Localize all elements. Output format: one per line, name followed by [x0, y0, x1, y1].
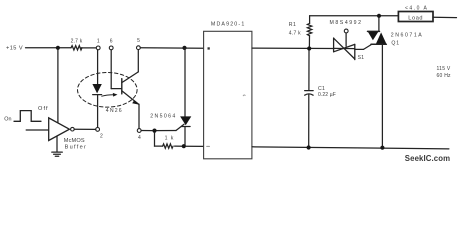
pin 2 terminal of 4N26 [96, 127, 100, 131]
node A junction at +15V rail [56, 46, 60, 50]
svg-text:MDA920-1: MDA920-1 [211, 22, 246, 28]
svg-text:1: 1 [97, 38, 100, 44]
LED of 4N26 (pin1 to pin2) [97, 50, 99, 84]
wire input to buffer [26, 129, 49, 131]
wire SCR anode vertical [184, 48, 186, 116]
wire buffer output to pin 2 [74, 128, 96, 130]
node C junction under R1 [307, 46, 311, 50]
node D junction triac top [377, 14, 381, 18]
svg-text:+15 V: +15 V [6, 45, 23, 51]
svg-text:4.7 k: 4.7 k [289, 31, 301, 37]
optocoupler U3 4N26 dashed outline [78, 73, 138, 108]
phototransistor of 4N26 [110, 50, 112, 89]
svg-text:5: 5 [137, 38, 140, 44]
pin 1 terminal of 4N26 [96, 46, 100, 50]
svg-text:2N5064: 2N5064 [150, 113, 176, 119]
pin 5 terminal of 4N26 [137, 46, 141, 50]
wire pin4 to gate node [141, 130, 152, 132]
node cathode junction [182, 144, 186, 148]
wire bridge right to S1 [252, 47, 334, 49]
wire +15V rail to resistor [26, 47, 72, 49]
svg-text:115 V: 115 V [437, 66, 451, 72]
load box [398, 12, 433, 22]
svg-text:McMOS: McMOS [64, 138, 85, 144]
svg-text:2N6071A: 2N6071A [391, 33, 423, 39]
svg-text:On: On [4, 116, 11, 122]
svg-text:Q1: Q1 [391, 41, 400, 47]
wire pin5 to bridge rectifier [140, 47, 203, 49]
svg-text:4N26: 4N26 [106, 108, 123, 114]
node C1 bottom junction [307, 145, 311, 149]
svg-text:2.7 k: 2.7 k [71, 39, 83, 45]
svg-text:M8S4992: M8S4992 [330, 20, 363, 26]
svg-text:Buffer: Buffer [65, 145, 88, 151]
svg-text:S1: S1 [358, 55, 365, 61]
svg-text:Off: Off [38, 106, 49, 112]
svg-text:<4.0 A: <4.0 A [405, 5, 428, 11]
bridge rectifier MDA920-1 [204, 31, 252, 159]
node B junction to SCR anode [182, 46, 186, 50]
resistor 2.7k [71, 46, 82, 50]
wire bottom rail [252, 147, 449, 149]
pin 4 terminal of 4N26 [137, 129, 141, 133]
light arrow LED to transistor [102, 95, 115, 97]
triac Q1 2N6071A [378, 18, 380, 32]
node triac bottom junction [380, 146, 384, 150]
svg-text:2: 2 [100, 133, 103, 139]
wire S1 to triac gate [355, 48, 364, 50]
svg-text:60 Hz: 60 Hz [437, 73, 452, 79]
svg-text:1 k: 1 k [165, 136, 175, 142]
svg-text:4: 4 [138, 135, 141, 141]
resistor R1 4.7k (vertical) [309, 16, 311, 24]
svg-text:SeekIC.com: SeekIC.com [405, 154, 450, 163]
svg-text:6: 6 [110, 38, 113, 44]
input pulse waveform [14, 111, 41, 122]
pin 6 terminal of 4N26 [109, 46, 113, 50]
svg-text:Load: Load [408, 15, 423, 21]
wire top rail R1 to load [310, 15, 399, 17]
resistor 1k [155, 145, 163, 147]
wire SCR gate [155, 130, 177, 132]
ground of buffer [56, 136, 58, 151]
wire +15V down to buffer power [57, 50, 59, 123]
wire resistor to pin 1 [81, 47, 96, 49]
svg-text:R1: R1 [289, 22, 297, 28]
svg-text:0.22 µF: 0.22 µF [318, 92, 336, 98]
node gate junction [152, 129, 156, 133]
wire to bridge bottom left [186, 145, 204, 147]
wire load to AC line [433, 16, 457, 18]
op-amp style buffer U2 McMOS triangle [49, 118, 70, 141]
capacitor C1 [308, 51, 310, 91]
svg-text:C1: C1 [318, 86, 325, 92]
wire gate node down [154, 133, 156, 147]
